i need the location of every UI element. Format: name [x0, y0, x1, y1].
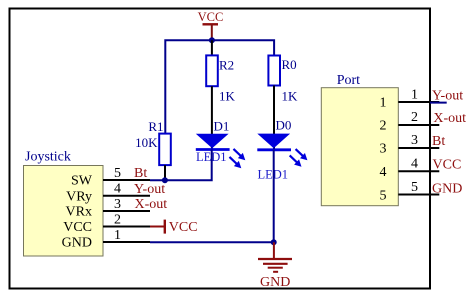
pin 3 (VRx) — [103, 210, 150, 212]
svg-text:1K: 1K — [219, 88, 236, 103]
svg-text:Bt: Bt — [432, 134, 445, 149]
svg-text:SW: SW — [71, 174, 93, 189]
svg-text:Bt: Bt — [134, 166, 147, 181]
svg-text:VRy: VRy — [66, 189, 92, 204]
wire LED D0 cathode to ground rail — [273, 150, 275, 243]
svg-text:X-out: X-out — [433, 111, 466, 126]
wire VCC rail with branch verticals — [165, 40, 274, 133]
svg-text:5: 5 — [114, 166, 121, 181]
wire R1 bottom to Bt net — [164, 165, 166, 180]
arrow D0 emission 2 — [287, 153, 304, 169]
pin 4 (Port) — [398, 170, 439, 172]
svg-text:VCC: VCC — [433, 157, 462, 172]
svg-text:10K: 10K — [135, 135, 158, 150]
ground symbol GND — [258, 242, 292, 290]
svg-text:D1: D1 — [214, 118, 230, 133]
pin 4 (VRy) — [103, 195, 150, 197]
wire GND net — [150, 241, 274, 243]
svg-text:1: 1 — [411, 87, 418, 102]
svg-text:R0: R0 — [282, 57, 297, 72]
LED D0 — [257, 118, 291, 150]
svg-text:2: 2 — [114, 213, 121, 228]
power symbol VCC (top) — [198, 10, 224, 40]
wire Bt net to LED D1 cathode — [150, 149, 212, 180]
arrow D1 emission 1 — [231, 146, 248, 162]
node GND junction — [271, 239, 277, 245]
pin 3 (Port) — [398, 147, 439, 149]
svg-text:GND: GND — [432, 181, 462, 196]
svg-text:2: 2 — [411, 110, 418, 125]
svg-text:VCC: VCC — [198, 10, 224, 24]
svg-text:D0: D0 — [276, 118, 292, 133]
node Bt junction — [162, 177, 168, 183]
svg-text:Port: Port — [337, 73, 360, 88]
svg-text:Y-out: Y-out — [432, 88, 463, 103]
wire from junction to R2 — [211, 40, 213, 55]
svg-text:3: 3 — [114, 197, 121, 212]
svg-text:GND: GND — [62, 236, 92, 251]
part Port body — [321, 88, 398, 206]
svg-text:GND: GND — [260, 275, 290, 290]
svg-text:VCC: VCC — [169, 220, 198, 235]
pin 5 (Port) — [398, 194, 439, 196]
svg-text:4: 4 — [114, 182, 121, 197]
resistor R2 — [206, 55, 234, 86]
svg-text:4: 4 — [380, 165, 387, 180]
svg-text:VCC: VCC — [63, 220, 92, 235]
pin 1 (GND) — [103, 241, 150, 243]
power symbol VCC (pin 2) — [150, 220, 198, 235]
pin 2 (VCC) — [103, 226, 150, 228]
svg-text:5: 5 — [411, 180, 418, 195]
pin 5 (SW) — [103, 179, 150, 181]
pin 1 (Port) — [398, 101, 439, 103]
svg-text:4: 4 — [411, 157, 418, 172]
svg-text:2: 2 — [380, 118, 387, 133]
svg-text:1: 1 — [114, 228, 121, 243]
svg-text:R2: R2 — [219, 57, 234, 72]
resistor R1 — [148, 119, 170, 165]
wire stub Y-out — [430, 102, 447, 104]
wire R2 to LED D1 — [211, 86, 213, 149]
svg-text:5: 5 — [380, 188, 387, 203]
svg-text:Y-out: Y-out — [134, 182, 165, 197]
node VCC junction — [209, 37, 215, 43]
svg-text:X-out: X-out — [135, 197, 168, 212]
svg-text:1K: 1K — [282, 88, 299, 103]
svg-text:1: 1 — [380, 96, 387, 111]
arrow D0 emission 1 — [293, 146, 310, 162]
part Joystick body — [24, 166, 104, 257]
svg-text:3: 3 — [411, 133, 418, 148]
arrow D1 emission 2 — [227, 154, 244, 170]
svg-text:3: 3 — [380, 141, 387, 156]
resistor R0 — [268, 56, 296, 86]
svg-text:R1: R1 — [148, 119, 163, 134]
pin 2 (Port) — [398, 124, 439, 126]
LED D1 — [196, 118, 230, 149]
svg-text:VRx: VRx — [66, 205, 92, 220]
svg-text:Joystick: Joystick — [25, 150, 71, 165]
wire R0 to LED D0 — [273, 86, 275, 150]
